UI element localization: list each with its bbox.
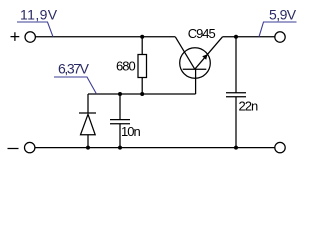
leader line for 11,9V — [17, 22, 53, 37]
transistor Q1 C945 (NPN) — [175, 37, 222, 94]
capacitor C1 10n — [110, 94, 130, 148]
junction dot: resistor top / input rail — [140, 35, 144, 39]
plus symbol (input polarity) — [11, 32, 20, 41]
ground terminal (bottom right) — [275, 142, 285, 152]
zener diode D1 — [79, 94, 96, 148]
junction dot: 10n / ground rail — [118, 146, 122, 150]
wire: top rail from emitter bend to output terminal — [223, 36, 275, 38]
svg-text:6,37V: 6,37V — [58, 61, 90, 77]
svg-text:5,9V: 5,9V — [269, 6, 297, 22]
leader line for 5,9V — [259, 22, 297, 37]
svg-text:10n: 10n — [121, 124, 140, 139]
junction dot: 10n top / base node — [118, 92, 122, 96]
resistor R 680 — [138, 37, 147, 94]
wire: bottom ground rail — [35, 147, 275, 149]
svg-text:22n: 22n — [239, 99, 258, 114]
capacitor C2 22n — [226, 37, 246, 148]
svg-text:C945: C945 — [188, 26, 216, 41]
wire: top rail from input terminal to collector bend — [36, 36, 176, 38]
junction dot: 22n / ground rail — [234, 146, 238, 150]
input terminal (top left) — [25, 32, 35, 42]
junction dot: 22n top / output rail — [234, 35, 238, 39]
output terminal (top right) — [275, 32, 285, 42]
svg-text:680: 680 — [116, 59, 135, 74]
junction dot: zener / ground rail — [86, 146, 90, 150]
ground terminal (bottom left) — [25, 142, 35, 152]
minus symbol (bottom polarity) — [8, 148, 19, 150]
leader line for 6,37V — [54, 77, 97, 94]
junction dot: resistor bottom / base node — [140, 92, 144, 96]
wire: base node line — [88, 93, 196, 95]
svg-text:11,9V: 11,9V — [20, 7, 58, 23]
